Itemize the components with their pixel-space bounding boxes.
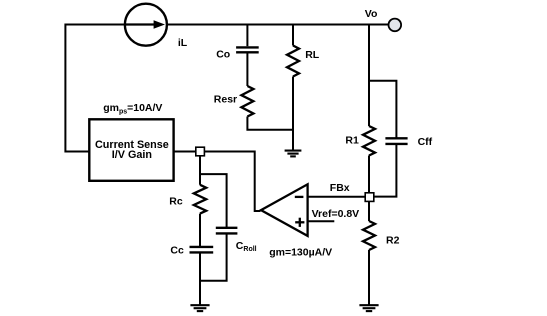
svg-text:iL: iL: [178, 37, 188, 49]
svg-text:FBx: FBx: [330, 182, 350, 194]
resistor Resr: [241, 86, 253, 117]
resistor RL: [287, 46, 299, 77]
ground (RL): [285, 151, 302, 157]
wire Resr bottom to RL bottom: [247, 117, 293, 130]
capacitor Cff: [385, 138, 407, 144]
wire RL branch from top rail: [292, 25, 294, 46]
wire CRoll bottom return: [200, 235, 227, 281]
wire Cff bottom to node FBx: [374, 145, 396, 197]
wire node A to op-amp output: [204, 152, 260, 212]
svg-text:Vo: Vo: [365, 8, 378, 20]
terminal Vo: [389, 19, 402, 32]
op-amp minus pin: [295, 196, 304, 198]
svg-text:Vref=0.8V: Vref=0.8V: [312, 208, 360, 220]
svg-text:Co: Co: [216, 49, 230, 61]
resistor R1: [363, 126, 375, 156]
wire Co branch from top rail: [246, 25, 248, 47]
wire R1 bottom to node FBx: [368, 156, 370, 193]
wire RL to ground: [292, 77, 294, 151]
node A (compensation node square): [196, 147, 205, 156]
block U2 Current Sense I/V Gain: [89, 119, 173, 181]
svg-text:gmps=10A/V: gmps=10A/V: [103, 102, 162, 116]
svg-text:Rc: Rc: [169, 196, 183, 208]
wire Co to Resr: [246, 54, 248, 87]
ground (Cc): [190, 305, 209, 311]
svg-text:I/V Gain: I/V Gain: [112, 149, 152, 161]
resistor R2: [363, 221, 375, 250]
wire Vref stub on + input: [308, 220, 335, 222]
svg-text:R2: R2: [386, 234, 400, 246]
svg-text:CRoll: CRoll: [236, 240, 257, 253]
svg-text:Resr: Resr: [214, 94, 237, 106]
wire node FBx to R2: [368, 201, 370, 221]
wire Vo vertical upper: [368, 25, 370, 127]
svg-text:RL: RL: [305, 49, 320, 61]
svg-text:gm=130µA/V: gm=130µA/V: [269, 247, 332, 259]
wire Cc to ground: [199, 254, 201, 305]
wire Cff branch top: [369, 81, 396, 139]
ground (R2): [359, 305, 378, 311]
resistor Rc: [194, 185, 206, 214]
op-amp U1: [261, 184, 308, 236]
capacitor Co: [236, 47, 259, 52]
current source iL: [125, 4, 167, 46]
wire Rc to Cc: [199, 214, 201, 246]
wire op-amp inverting input to node FBx: [308, 196, 365, 198]
capacitor Cc: [190, 247, 214, 253]
svg-text:Cff: Cff: [418, 136, 433, 148]
op-amp plus pin: [295, 218, 304, 227]
wire R2 to ground: [368, 250, 370, 305]
wire left vertical + top rail + into box: [65, 25, 388, 152]
wire CRoll branch top: [200, 174, 227, 227]
wire box to node A: [174, 151, 197, 153]
capacitor CRoll: [216, 228, 238, 234]
svg-text:R1: R1: [345, 134, 359, 146]
svg-text:Cc: Cc: [170, 244, 184, 256]
node FBx square: [365, 193, 374, 202]
wire node A down to Rc: [199, 156, 201, 185]
